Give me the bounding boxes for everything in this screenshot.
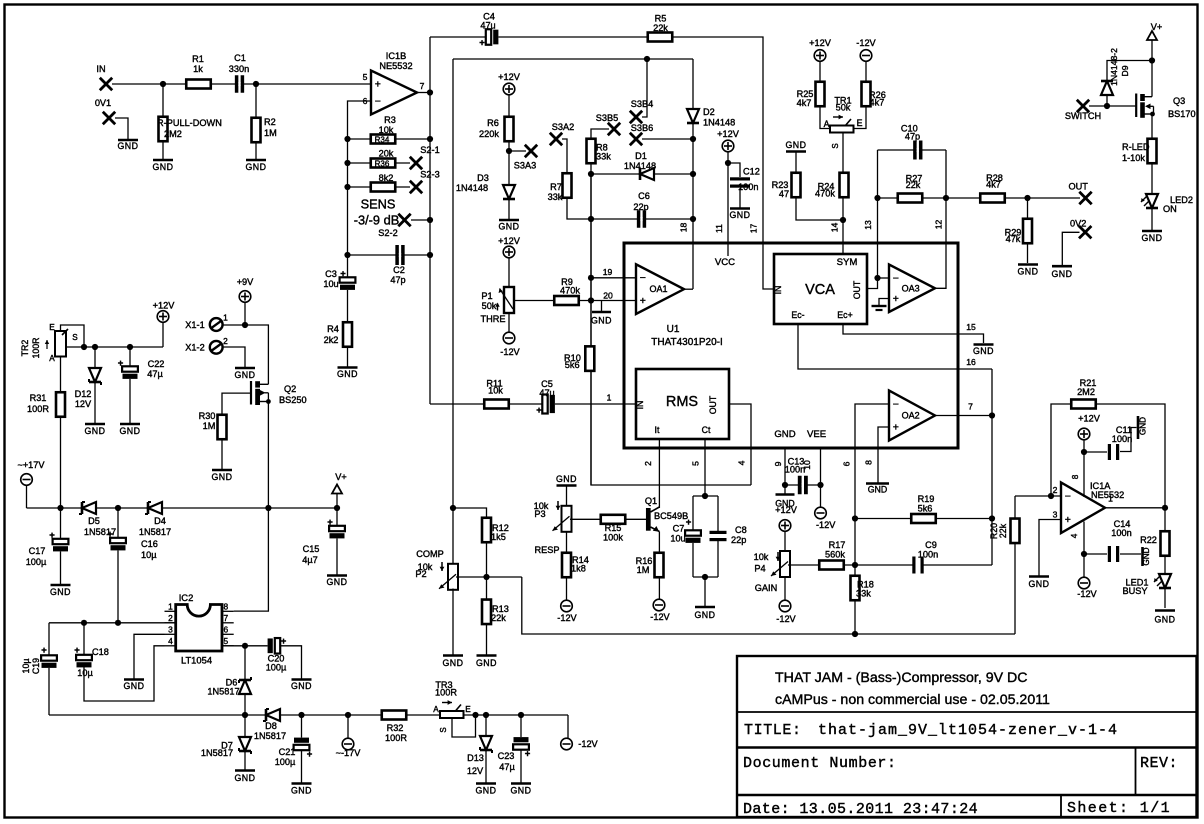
ground under R29 [1018,263,1038,266]
wire sens row3 [348,186,411,188]
svg-text:R17: R17 [829,540,846,550]
svg-text:GND: GND [475,786,496,796]
wire IC1A V+ [1083,440,1085,497]
transistor Q2 BS250 [250,381,252,405]
svg-text:SWITCH: SWITCH [1065,111,1101,121]
wire OA3 plus to gnd [879,299,889,306]
junction D1 row left [588,171,594,177]
wire LED1 to ground [1164,588,1166,608]
ground at 0V1 [118,139,138,142]
wire D7 to ground [244,751,246,770]
wire C17 to ground [60,508,62,584]
svg-text:-12V: -12V [776,614,796,624]
svg-text:−: − [893,398,899,410]
svg-text:470k: 470k [560,286,580,296]
svg-text:1M: 1M [203,421,216,431]
svg-text:R15: R15 [605,523,622,533]
svg-text:Date: 13.05.2011 23:47:24: Date: 13.05.2011 23:47:24 [743,801,978,818]
capacitor C5 47u [542,395,555,414]
svg-text:THAT JAM - (Bass-)Compressor,: THAT JAM - (Bass-)Compressor, 9V DC [775,670,1028,686]
wire R6 to D3 to ground [508,95,510,219]
resistor R17 560k [819,561,844,570]
svg-text:S3B5: S3B5 [596,113,618,123]
wire TR3 wiper tie [452,715,476,737]
junction switch node [1104,103,1110,109]
svg-text:Q3: Q3 [1173,96,1185,106]
wire OA2 plus to pin8 [878,427,889,483]
svg-text:R5: R5 [655,14,667,24]
wire X1-1 to node [222,324,245,326]
wire switch to gate [1089,105,1136,107]
resistor R24 470k [840,173,849,198]
wire RMS out to pin4 [729,404,751,485]
svg-text:22k: 22k [491,613,506,623]
svg-text:S2-2: S2-2 [378,228,397,238]
junction R19/pin6 [852,515,858,521]
svg-text:20: 20 [603,291,613,301]
wire sens row1 [348,138,431,140]
wire cap bank to ground [704,577,706,606]
wire D9 to switch node [1106,95,1108,106]
capacitor C10 47p [913,141,922,160]
VCA box [774,254,867,324]
svg-text:GND: GND [1017,267,1038,277]
svg-text:5: 5 [223,636,228,646]
wire S3B6 row [642,138,693,140]
wire pin14 SYM [842,133,844,254]
capacitor C3 10u [340,277,356,290]
svg-text:GND: GND [234,773,255,783]
diode D6 1N5817 [239,680,251,694]
svg-text:5: 5 [363,72,368,82]
wire C6 row [591,218,693,220]
svg-text:Ec+: Ec+ [837,310,852,320]
svg-text:that-jam_9V_lt1054-zener_v-1-4: that-jam_9V_lt1054-zener_v-1-4 [818,722,1118,739]
svg-text:GAIN: GAIN [755,583,777,593]
svg-text:Ct: Ct [702,425,711,435]
wire pin2 row [1015,495,1061,497]
svg-text:R19: R19 [918,494,935,504]
svg-text:C3: C3 [325,269,337,279]
ground under R4 [338,366,358,369]
switch contact S3B4 [630,111,642,123]
svg-text:R31: R31 [30,393,47,403]
svg-text:+: + [74,645,80,656]
wire y59 net [453,58,693,60]
supply -12V under P4 [779,600,791,612]
svg-text:560k: 560k [825,550,845,560]
svg-text:D1: D1 [635,151,647,161]
svg-text:+12V: +12V [498,236,521,246]
svg-text:47µ: 47µ [147,369,163,379]
ground under C23 [511,782,531,785]
svg-text:GND: GND [291,681,312,691]
svg-text:1N4148: 1N4148 [624,161,656,171]
svg-text:−: − [1065,490,1071,502]
svg-text:S: S [439,727,448,732]
wire V+ to Q3 drain [1151,40,1153,97]
svg-text:E: E [857,118,863,128]
supply -12V under R16 [653,599,665,611]
svg-text:NE5532: NE5532 [379,61,412,71]
svg-text:R7: R7 [550,182,562,192]
svg-text:2M2: 2M2 [1077,387,1095,397]
svg-text:50k: 50k [482,301,497,311]
svg-text:GND: GND [1141,233,1162,243]
svg-text:47: 47 [779,189,789,199]
svg-text:LT1054: LT1054 [181,655,212,666]
svg-text:cAMPus - non commercial use -: cAMPus - non commercial use - 02.05.2011 [775,692,1050,708]
svg-text:10u: 10u [670,534,685,544]
wire pin6 feedback left rail [348,101,372,367]
svg-text:P4: P4 [754,564,765,574]
ground under C21 [292,782,312,785]
svg-text:100R: 100R [27,404,49,414]
junction C14 tap [1081,551,1087,557]
svg-text:3: 3 [1053,510,1058,520]
op-amp OA3 [889,265,935,313]
diode D9 1N4148-2 [1101,81,1113,95]
svg-text:C9: C9 [925,540,937,550]
svg-text:13: 13 [863,220,873,230]
wire Q1 emitter to R16 [658,532,660,600]
svg-text:TR2: TR2 [20,340,30,357]
svg-text:S2-1: S2-1 [420,145,439,155]
svg-text:2M2: 2M2 [164,129,182,139]
wire pin9 [784,448,786,494]
svg-text:2: 2 [168,613,173,623]
svg-text:Sheet: 1/1: Sheet: 1/1 [1067,800,1171,817]
svg-text:BUSY: BUSY [1122,586,1147,596]
supply -12V under P1 [503,332,515,344]
junction R27 left [874,195,880,201]
svg-text:U1: U1 [667,324,680,335]
svg-text:IN: IN [96,64,105,74]
svg-text:D2: D2 [703,107,715,117]
switch contact S3A2 [550,133,562,145]
wire IC1A output [1105,507,1165,509]
capacitor C6 22p [637,210,646,228]
wire 0V1 to ground [115,118,128,139]
svg-text:-12V: -12V [578,739,598,749]
resistor R2 1M [252,118,261,143]
svg-text:+: + [479,38,485,49]
svg-text:12V: 12V [467,766,484,776]
junction C13 left [782,482,788,488]
wire 0V2 to ground [1062,232,1079,265]
wire pin10 to -12V [820,485,822,507]
resistor R31 100R [56,392,65,417]
wire pin 19 [591,277,636,279]
wire feedback right rail [429,37,431,404]
potentiometer P1 50k THRE [504,287,514,313]
wire IC1A plus to ground [1039,520,1061,577]
capacitor C4 47u [486,29,499,45]
ground at 0V2 [1052,265,1072,268]
wire C12 [728,163,740,177]
capacitor C17 100u [53,539,69,552]
resistor R25 4k7 [816,82,825,107]
svg-text:R32: R32 [387,723,404,733]
svg-text:GND: GND [591,316,612,326]
svg-text:S3B4: S3B4 [631,99,653,109]
wire C23 to ground [520,750,522,783]
svg-text:SENS: SENS [361,197,396,212]
wire -17V rail [49,714,568,716]
ground pin9 [776,493,795,496]
wire C20 to ground [281,646,302,679]
capacitor C16 10u [110,538,126,551]
svg-text:C15: C15 [303,544,320,554]
ground under LED2 [1142,230,1162,233]
resistor R10 5k6 [585,346,594,371]
wire D6 to minus rail [244,693,246,715]
svg-text:TITLE:: TITLE: [744,722,802,739]
svg-text:GND: GND [498,222,519,232]
resistor R15 100k [601,515,626,524]
svg-text:-12V: -12V [500,347,520,357]
svg-text:+9V: +9V [237,277,254,287]
title block frame [737,656,1197,817]
junction pin19 [588,275,594,281]
resistor R26 4k7 [862,82,871,107]
capacitor C13 100n [798,476,808,495]
svg-text:R4: R4 [327,324,339,334]
svg-text:COMP: COMP [416,549,444,559]
junction R29 tap [1024,195,1030,201]
svg-text:IN: IN [635,401,645,410]
svg-text:GND: GND [785,140,806,150]
junction pin12/R27/R28 [943,195,949,201]
svg-text:S3A3: S3A3 [514,161,536,171]
svg-text:+: + [49,530,55,541]
wire D9 branch [1107,61,1152,82]
svg-text:9: 9 [773,461,783,466]
resistor R20 22k [1014,496,1016,519]
svg-text:D3: D3 [477,173,489,183]
capacitor C15 4u7 [329,526,345,539]
svg-text:+12V: +12V [809,38,832,48]
wire C11 [1084,451,1107,453]
svg-text:50k: 50k [836,103,851,113]
wire ~+17V to rail [26,485,28,508]
wire TR2 E-tie [61,325,85,347]
svg-text:16: 16 [966,357,976,367]
wire OA2 minus to pin6 [855,404,889,634]
resistor R29 47k [1023,219,1032,244]
svg-text:R30: R30 [199,411,216,421]
svg-text:GND: GND [1028,579,1049,589]
svg-text:47k: 47k [1006,234,1021,244]
diode D5 1N5817 [82,502,96,514]
svg-text:12: 12 [934,220,944,230]
wire left long vertical [452,59,454,565]
junction D9 tap [1149,57,1155,63]
svg-text:47u: 47u [539,388,554,398]
svg-text:S: S [72,333,78,342]
svg-text:12V: 12V [75,399,92,409]
wire +12V drop [162,322,164,347]
wire P3 top [566,486,568,507]
svg-text:−: − [640,272,646,284]
svg-text:+12V: +12V [153,301,176,311]
wire P4 top [784,531,786,551]
svg-text:1M: 1M [637,565,650,575]
svg-text:47p: 47p [905,132,920,142]
svg-text:14: 14 [830,223,840,233]
svg-text:A: A [49,354,55,363]
diode D3 1N4148 [503,185,515,199]
wire R20 to mid rail [1014,543,1016,635]
wire P4 bottom to -12V [784,577,786,600]
svg-text:22k: 22k [998,523,1008,538]
svg-text:GND: GND [245,162,266,172]
svg-text:GND: GND [868,485,888,495]
svg-text:4: 4 [737,460,747,465]
svg-text:1: 1 [607,393,612,403]
ground under D3 [499,219,519,222]
capacitor C22 47u [122,366,138,379]
svg-text:+: + [340,269,346,280]
svg-text:X1-1: X1-1 [185,320,204,330]
svg-text:-12V: -12V [650,612,670,622]
ground under R13 [477,654,497,657]
ground at IC2 pin3 [124,678,144,681]
svg-text:S3A2: S3A2 [552,122,574,132]
wire OA3 minus input [878,277,890,279]
capacitor C14 100n [1108,546,1119,562]
svg-text:+12V: +12V [498,72,521,82]
wire OA2 out pin7 [935,415,992,417]
wire +17V rail [27,507,338,509]
svg-text:470k: 470k [815,189,835,199]
capacitor C23 47u [520,715,522,738]
svg-text:VCC: VCC [715,257,735,268]
capacitor C21 100u [301,715,303,738]
svg-text:S3B6: S3B6 [631,123,653,133]
wire pin2 bus [49,622,176,624]
ground under X1-2 [235,367,255,370]
wire P4 wiper to R17 [788,564,855,566]
resistor R-LED 1-10k [1148,139,1157,164]
resistor R4 2k2 [343,322,352,347]
wire P2 to ground [452,589,454,656]
svg-text:ON: ON [1163,204,1177,214]
svg-text:8: 8 [864,460,874,465]
svg-text:20k: 20k [379,149,394,159]
svg-text:GND: GND [211,472,232,482]
ground under R2 [246,159,266,162]
wire pin5 node [222,645,268,647]
svg-text:P1: P1 [481,291,492,301]
capacitor C7 10u [685,530,701,543]
svg-text:GND: GND [119,426,140,436]
svg-text:+: + [640,295,646,307]
svg-text:R22: R22 [1140,535,1157,545]
junction D12 [92,344,98,350]
svg-text:C21: C21 [279,747,296,757]
svg-text:P2: P2 [415,569,426,579]
svg-text:1N4148: 1N4148 [456,183,488,193]
svg-text:1: 1 [223,313,228,323]
terminal X1-1 [210,318,223,331]
svg-text:4µ7: 4µ7 [302,555,318,565]
wire R11-C5-pin1 [430,403,636,405]
svg-text:−: − [375,95,381,107]
junction output/R21/R22 [1162,505,1168,511]
svg-text:C22: C22 [148,359,165,369]
wire pin2 It to Q1 [658,439,660,508]
wire C14 to rotated ground [1120,553,1141,555]
supply -12V pin10 [815,507,827,519]
svg-text:D12: D12 [75,389,92,399]
wire C2 row [348,254,431,256]
wire C19 to minus rail [48,668,50,715]
svg-text:10u: 10u [323,279,338,289]
svg-text:-12V: -12V [1077,589,1097,599]
svg-text:VEE: VEE [807,429,826,440]
svg-text:C17: C17 [29,546,46,556]
svg-text:OUT: OUT [1068,182,1088,192]
ground under R30 [212,469,232,472]
wire pin 20 [591,300,636,302]
wire pin13 vertical [877,150,879,278]
capacitor C18 10u [76,655,92,668]
svg-text:~+17V: ~+17V [17,460,45,470]
svg-text:RMS: RMS [666,394,698,410]
svg-text:10k: 10k [488,386,503,396]
wire rail to -12V [567,715,569,738]
svg-text:RESP: RESP [534,545,559,555]
wire IC1A V- to -12V [1083,522,1085,578]
svg-text:E: E [49,323,55,332]
svg-text:IC2: IC2 [179,592,194,603]
node SWITCH [1077,100,1089,112]
wire P3 wiper to R15 [570,518,648,520]
wire C13 row [785,484,821,486]
supply ~-17V [347,715,349,738]
svg-text:+: + [536,405,542,416]
svg-text:C1: C1 [234,53,246,63]
svg-text:GND: GND [117,141,138,151]
svg-text:C23: C23 [498,751,515,761]
svg-text:V+: V+ [335,472,347,482]
svg-text:REV:: REV: [1140,755,1178,772]
transistor Q3 BS170 [1135,94,1137,118]
svg-text:GND: GND [556,474,577,484]
svg-text:8k2: 8k2 [379,173,394,183]
svg-text:10k: 10k [379,125,394,135]
svg-text:22p: 22p [731,535,746,545]
resistor R11 10k [484,400,509,409]
wire Q2 drain to rail to IC2 pin8 [234,402,269,612]
svg-text:S: S [831,143,840,148]
resistor R19 5k6 [911,514,936,523]
resistor R18 33k [851,576,860,601]
svg-text:~-17V: ~-17V [336,748,362,758]
svg-text:100µ: 100µ [266,663,287,673]
svg-text:1: 1 [1108,494,1113,504]
resistor R22 [1161,531,1170,556]
resistor 8k2 [371,183,396,192]
wire IN to IC1B pin5 [112,83,371,85]
svg-text:2: 2 [643,461,653,466]
resistor R13 22k [482,600,491,625]
ground under P2 [443,654,463,657]
svg-text:100n: 100n [738,182,758,192]
svg-text:R2: R2 [264,117,276,127]
svg-text:10µ: 10µ [21,659,31,674]
